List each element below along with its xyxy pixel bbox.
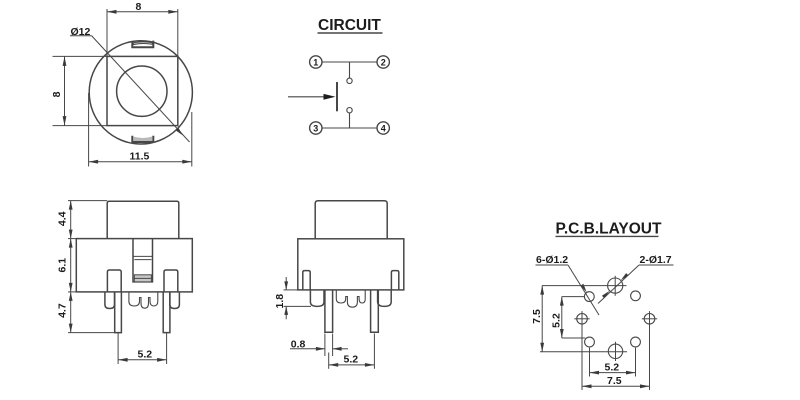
side 5.2: right arrow — [365, 363, 375, 367]
top view: top mounting tab — [132, 41, 153, 48]
top view: top tab inner line — [133, 42, 152, 45]
pcb hole top-right Ø1.2 — [631, 291, 641, 301]
front view: button cap — [107, 201, 179, 238]
side 1.8: extension at lug bottom — [284, 305, 312, 307]
svg-text:5.2: 5.2 — [605, 361, 620, 373]
dimension 8 top: dimension line — [107, 11, 178, 13]
front view: body — [76, 239, 192, 292]
front dims: extension body top — [68, 238, 76, 240]
svg-text:8: 8 — [51, 91, 63, 97]
pcb hole big top Ø1.7 — [608, 278, 623, 293]
svg-text:1.8: 1.8 — [274, 294, 286, 309]
svg-text:P.C.B.LAYOUT: P.C.B.LAYOUT — [556, 221, 662, 238]
front dims: extension body bottom — [68, 291, 76, 293]
dimension 11.5: left arrow — [89, 160, 99, 164]
top view: square body outline 8x8 — [107, 56, 178, 125]
front 5.2: extension right pin — [166, 333, 168, 364]
terminal 4 circle — [377, 122, 389, 134]
switch actuator bar — [336, 82, 338, 111]
pcb 5.2 vertical: dimension line — [561, 297, 563, 338]
dimension 11.5: dimension line — [89, 161, 192, 163]
pcb hole big bottom Ø1.7 — [608, 344, 622, 358]
leader 6-Ø1.2 line — [568, 265, 599, 315]
pcb hole middle-left Ø1.2 — [577, 314, 588, 325]
pcb 5.2 vertical: extension bottom — [562, 337, 586, 339]
pcb bottom 5.2: left arrow — [590, 371, 600, 375]
lower contact circle — [347, 108, 352, 113]
top view: button inner circle — [117, 66, 167, 116]
leader 6-Ø1.2 arrow head — [581, 284, 587, 293]
front 5.2: dimension line — [118, 359, 167, 361]
front 5.2: right arrow — [157, 358, 167, 362]
dimension 8 left: top arrow — [63, 56, 67, 66]
side view: inner boss left — [303, 271, 310, 290]
pcb 5.2 vertical: top arrow — [560, 297, 564, 306]
side view: right wide lug — [378, 290, 392, 307]
label 6-Ø1.2 underline — [536, 264, 569, 266]
front view: plunger line 1 — [133, 255, 153, 257]
pcb 5.2 vertical: extension top — [562, 296, 584, 298]
terminal 2 circle — [377, 56, 389, 68]
front view: left outer lug — [105, 292, 115, 309]
side 5.2: extension right pin center — [373, 334, 375, 369]
side view: left pin — [325, 290, 333, 332]
pcb left 7.5: dimension line — [541, 286, 543, 352]
dimension 11.5: right arrow — [182, 160, 192, 164]
label Ø12 underline — [70, 35, 92, 37]
middle-left hole horizontal crosshair — [574, 318, 589, 320]
dimension 8 top: left arrow — [107, 10, 117, 14]
side view: right pin — [371, 290, 379, 332]
leader 2-Ø1.7 diagonal line — [598, 265, 639, 304]
top view: bottom tab shading — [133, 137, 152, 142]
side 5.2: dimension line — [329, 364, 375, 366]
wire terminal3 to terminal4 — [321, 127, 377, 129]
side 0.8: left arrow head — [316, 347, 325, 351]
side 0.8: pin left edge extension — [324, 334, 326, 357]
leader 2-Ø1.7 arrow toward hole lower-left — [602, 291, 610, 298]
svg-text:CIRCUIT: CIRCUIT — [318, 17, 381, 34]
side 0.8: pin right edge extension — [332, 334, 334, 357]
front view: inner leg left — [107, 270, 121, 292]
svg-text:5.2: 5.2 — [138, 349, 153, 361]
side view: button cap — [315, 201, 387, 239]
arrowhead of Ø12 leader — [176, 128, 184, 136]
front view: right pin — [163, 292, 170, 333]
svg-text:4.7: 4.7 — [57, 303, 69, 318]
side view: body — [298, 239, 404, 290]
upper contact circle — [347, 78, 352, 83]
pcb hole middle-right Ø1.2 — [644, 314, 655, 325]
terminal 3 circle — [310, 122, 322, 134]
pcb bottom 7.5: left arrow — [582, 384, 592, 388]
pcb hole bottom-right Ø1.2 — [631, 337, 641, 347]
svg-text:6-Ø1.2: 6-Ø1.2 — [536, 254, 568, 266]
front view: plunger line 2 — [134, 259, 151, 261]
svg-text:2: 2 — [381, 57, 386, 67]
side view: center tabs — [336, 290, 365, 307]
front view: right outer lug — [170, 292, 180, 309]
front view: center support lobes — [129, 292, 158, 308]
front view: plunger slot — [133, 239, 153, 282]
label 2-Ø1.7 underline — [639, 264, 674, 266]
svg-text:1: 1 — [313, 57, 318, 67]
dimension 0.8 underline — [290, 348, 309, 350]
svg-text:5.2: 5.2 — [551, 313, 563, 328]
side 1.8: upper arrow head — [284, 281, 288, 290]
svg-text:4: 4 — [381, 123, 386, 133]
pcb hole top-left Ø1.2 — [584, 292, 594, 302]
extension from bottom-left hole down — [589, 348, 591, 377]
front view: left pin — [115, 292, 122, 333]
svg-text:4.4: 4.4 — [57, 211, 69, 226]
pcb hole big bottom vertical crosshair — [615, 342, 617, 361]
front view: plunger bottom block — [134, 275, 151, 282]
svg-text:3: 3 — [313, 123, 318, 133]
wire lower contact to bottom — [349, 113, 351, 128]
side 5.2: extension left pin center — [328, 353, 330, 369]
extension line from big top hole to left dim — [542, 285, 627, 287]
front dims: arrow up at cap top — [69, 201, 73, 210]
front dims: arrow down at pin bottom — [69, 324, 73, 333]
pcb bottom 5.2: dimension line — [590, 372, 636, 374]
pcb left 7.5: bottom arrow — [540, 343, 544, 352]
front dims: extension pin bottom — [68, 332, 121, 334]
dimension 11.5: extension line right — [191, 112, 193, 167]
extension line from big bottom hole to left dim — [540, 351, 627, 353]
front dims: arrows at body top — [69, 230, 73, 239]
svg-text:2-Ø1.7: 2-Ø1.7 — [640, 254, 672, 266]
front 5.2: left arrow — [118, 358, 128, 362]
dimension 8 left: extension line top — [53, 55, 108, 57]
pcb bottom 7.5: right arrow — [640, 384, 650, 388]
side 0.8: left arrow line — [309, 348, 325, 350]
dimension 8 left: dimension line — [64, 56, 66, 125]
middle-right hole vertical crosshair and extension down — [649, 311, 651, 390]
front view: inner leg right — [164, 270, 178, 292]
front dims: arrows at body bottom — [69, 283, 73, 292]
dimension 8 top: extension line left — [106, 9, 108, 56]
top view: switch body outer circle — [89, 41, 192, 144]
dimension 8 top: extension line right — [177, 9, 179, 56]
side 1.8: upper arrow line — [285, 277, 287, 290]
pcb 5.2 vertical: bottom arrow — [560, 329, 564, 338]
actuator push arrow head — [324, 94, 336, 100]
front view: plunger block mid line — [134, 277, 151, 279]
actuator push arrow line — [288, 96, 331, 98]
pcb layout title underline — [556, 235, 659, 237]
pcb bottom 7.5: dimension line — [582, 385, 650, 387]
circuit title underline — [318, 32, 383, 34]
side view: left wide lug — [310, 290, 324, 307]
terminal 1 circle — [310, 56, 322, 68]
pcb hole bottom-left Ø1.2 — [585, 337, 595, 347]
dimension 8 left: extension line bottom — [53, 125, 108, 127]
svg-text:7.5: 7.5 — [531, 309, 543, 324]
wire terminal1 to terminal2 — [321, 61, 377, 63]
svg-text:8: 8 — [136, 1, 142, 13]
svg-text:11.5: 11.5 — [130, 151, 150, 163]
side 1.8: extension at body bottom — [284, 289, 298, 291]
top view: bottom mounting tab — [132, 136, 153, 142]
dimension 11.5: extension line left — [88, 93, 90, 167]
pcb hole big top vertical crosshair — [614, 276, 616, 296]
svg-text:5.2: 5.2 — [344, 354, 359, 366]
front dims: extension cap top — [68, 200, 107, 202]
side view: inner boss right — [391, 271, 398, 290]
leader 2-Ø1.7 arrow toward hole upper-right — [621, 273, 629, 280]
svg-text:7.5: 7.5 — [607, 375, 622, 387]
dimension 8 top: right arrow — [168, 10, 178, 14]
side 1.8: lower arrow head — [284, 306, 288, 315]
side 1.8: lower arrow line — [285, 306, 287, 319]
wire junction to upper contact — [349, 62, 351, 78]
side 5.2: left arrow — [329, 363, 339, 367]
middle-left hole vertical crosshair and extension down — [581, 311, 583, 390]
side 0.8: right arrow line — [333, 348, 348, 350]
extension from bottom-right hole down — [635, 348, 637, 377]
pcb left 7.5: top arrow — [540, 286, 544, 295]
side 0.8: right arrow head — [333, 347, 342, 351]
middle-right hole horizontal crosshair — [642, 318, 657, 320]
front dims: chain dimension line — [70, 201, 72, 333]
front 5.2: extension left pin — [117, 333, 119, 364]
dimension 8 left: bottom arrow — [63, 116, 67, 126]
dimension leader diagonal for Ø12 — [92, 36, 190, 142]
pcb bottom 5.2: right arrow — [626, 371, 636, 375]
svg-text:6.1: 6.1 — [57, 258, 69, 273]
